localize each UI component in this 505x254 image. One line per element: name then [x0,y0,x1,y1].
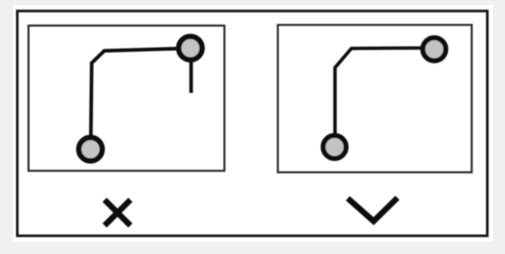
wire: left trace from bottom pad up, 45-degree bend, to top-right pad [91,48,191,149]
pad: left panel top-right [179,36,202,59]
pad: left panel bottom-left [79,138,102,161]
wire: overshoot stub below top-right pad (routing error) [189,48,193,93]
symbol: X (wrong) below left panel [105,200,131,226]
pad: right panel top-right [423,38,446,61]
symbol: check chevron (correct) below right panel [348,198,398,221]
pad: right panel bottom-left [323,136,346,159]
wire: right trace from bottom pad up, 45-degree bend, to top-right pad [335,48,434,147]
right panel frame [278,25,472,172]
left panel frame [29,26,225,171]
